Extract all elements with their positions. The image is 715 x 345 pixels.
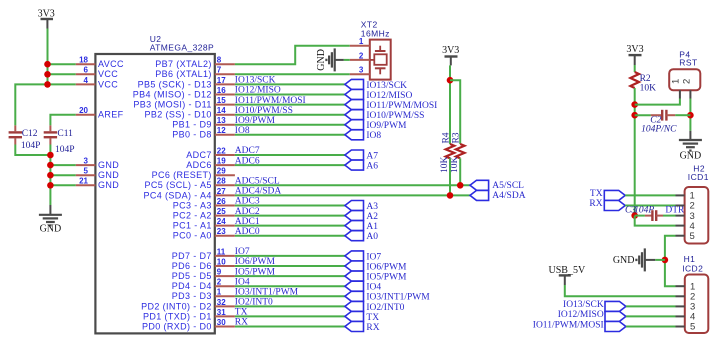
node IO12/MISO flag (at H1) bbox=[605, 311, 626, 321]
pin 3 stub (U2 GND) bbox=[76, 164, 96, 166]
svg-text:IO5/PWM: IO5/PWM bbox=[235, 267, 276, 277]
wire net IO4 bbox=[235, 285, 345, 287]
svg-text:ICD1: ICD1 bbox=[688, 172, 709, 182]
node TX flag bbox=[345, 311, 364, 321]
wire net ADC2 bbox=[235, 215, 345, 217]
svg-text:GND: GND bbox=[98, 180, 119, 190]
pin name PD0 (RXD) - D0 bbox=[142, 321, 212, 331]
svg-text:R4: R4 bbox=[441, 132, 451, 143]
pin 17 stub (U2 PB5 (SCK) - D13) bbox=[215, 83, 235, 85]
wire net ADC5/SCL bbox=[235, 184, 470, 186]
junction RST/C3 bbox=[631, 212, 638, 219]
wire VCC pin6 bbox=[48, 73, 76, 75]
capacitor C12 bbox=[9, 125, 22, 144]
net label IO12/MISO (on wire) bbox=[235, 86, 281, 96]
svg-text:20: 20 bbox=[79, 106, 88, 115]
pin name PD3 - D3 bbox=[172, 291, 212, 301]
wire net IO12/MISO bbox=[235, 94, 345, 96]
svg-text:IO6/PWM: IO6/PWM bbox=[235, 257, 276, 267]
pin 2 stub (P4) bbox=[689, 90, 691, 98]
net name IO9/PWM bbox=[366, 121, 407, 131]
pin 5 stub (U2 GND) bbox=[76, 174, 96, 176]
svg-text:PC3 - A3: PC3 - A3 bbox=[173, 200, 212, 210]
pin name PD2 (INT0) - D2 bbox=[141, 301, 212, 311]
pin 18 stub (U2 AVCC) bbox=[76, 63, 96, 65]
net label ADC7 (on wire) bbox=[235, 146, 260, 156]
svg-text:GND: GND bbox=[316, 49, 327, 71]
ground symbol (right) bbox=[679, 131, 702, 162]
pin 9 stub (U2 PD5 - D5) bbox=[215, 275, 235, 277]
svg-text:104P: 104P bbox=[634, 206, 654, 216]
capacitor C2 bbox=[651, 110, 676, 121]
svg-text:IO10/PWM/SS: IO10/PWM/SS bbox=[366, 111, 424, 121]
junction R4/R3 top bbox=[447, 77, 454, 84]
wire AREF pin20 to C11 bbox=[50, 115, 75, 126]
wire 3V3 to R2 bbox=[634, 65, 636, 72]
svg-text:1: 1 bbox=[671, 79, 682, 84]
label R3 bbox=[452, 132, 462, 143]
svg-text:PB7 (XTAL2): PB7 (XTAL2) bbox=[155, 59, 212, 69]
net name A5/SCL bbox=[492, 181, 524, 191]
label R2 bbox=[640, 74, 651, 84]
wire IO13/SCK to H1 bbox=[626, 305, 676, 307]
svg-text:27: 27 bbox=[217, 187, 226, 196]
svg-text:PB5 (SCK) - D13: PB5 (SCK) - D13 bbox=[138, 79, 212, 89]
pin 29 stub (U2 PC6 (RESET)) bbox=[215, 174, 235, 176]
node A7 flag bbox=[345, 150, 364, 160]
node IO8 flag bbox=[345, 130, 364, 140]
pin number 29 bbox=[217, 167, 226, 176]
svg-text:3: 3 bbox=[84, 157, 89, 166]
junction RST/C2 bbox=[631, 112, 638, 119]
wire GND vertical (left) bbox=[49, 145, 51, 206]
svg-text:IO10/PWM/SS: IO10/PWM/SS bbox=[235, 106, 293, 116]
junction GND (mid-right) bbox=[662, 257, 669, 264]
pin name PC4 (SDA) - A4 bbox=[143, 190, 211, 200]
svg-text:13: 13 bbox=[217, 116, 226, 125]
net name A2 bbox=[366, 212, 378, 222]
wire TX to H2 pin1 bbox=[625, 194, 675, 196]
svg-text:IO13/SCK: IO13/SCK bbox=[235, 76, 276, 86]
svg-text:25: 25 bbox=[217, 207, 226, 216]
wire GND pin5 bbox=[50, 174, 75, 176]
pin 2 stub (U2 PD4 - D4) bbox=[215, 285, 235, 287]
pin number 1 (P4) bbox=[671, 79, 682, 84]
net label IO13/SCK (on wire) bbox=[235, 76, 276, 86]
net label IO4 (on wire) bbox=[235, 277, 250, 287]
svg-text:A2: A2 bbox=[366, 212, 378, 222]
net label IO10/PWM/SS (on wire) bbox=[235, 106, 293, 116]
svg-text:RST: RST bbox=[679, 58, 697, 68]
net label IO2/INT0 (on wire) bbox=[235, 298, 273, 308]
pin 26 stub (U2 PC3 - A3) bbox=[215, 205, 235, 207]
svg-text:31: 31 bbox=[217, 308, 226, 317]
svg-text:ADC5/SCL: ADC5/SCL bbox=[235, 177, 280, 187]
label C11 bbox=[57, 129, 73, 139]
net name IO4 bbox=[366, 283, 381, 293]
pin number 2 bbox=[217, 278, 222, 287]
wire AVCC pin18 bbox=[48, 63, 76, 65]
svg-text:PD0 (RXD) - D0: PD0 (RXD) - D0 bbox=[142, 321, 212, 331]
net name IO2/INT0 bbox=[366, 303, 404, 313]
wire XTAL2 (pin8 to XT2 pin1) bbox=[235, 46, 350, 64]
svg-text:IO12/MISO: IO12/MISO bbox=[558, 310, 604, 320]
svg-text:18: 18 bbox=[79, 56, 88, 65]
svg-text:5: 5 bbox=[84, 167, 89, 176]
node A5/SCL flag bbox=[470, 180, 489, 190]
svg-text:24: 24 bbox=[217, 217, 226, 226]
svg-text:19: 19 bbox=[217, 157, 226, 166]
svg-text:21: 21 bbox=[79, 177, 88, 186]
pin number 4 (H2) bbox=[690, 221, 695, 232]
power symbol 3V3 (middle) bbox=[442, 45, 459, 65]
net name IO3/INT1/PWM bbox=[366, 293, 430, 303]
svg-text:5: 5 bbox=[690, 322, 695, 333]
connector H1 body bbox=[685, 275, 709, 334]
wire branch to R3 bbox=[450, 80, 460, 144]
pin number 20 bbox=[79, 106, 88, 115]
ground symbol (at XT2) bbox=[316, 48, 344, 71]
pin number 28 bbox=[217, 177, 226, 186]
pin 8 stub (U2 PB7 (XTAL2)) bbox=[215, 63, 235, 65]
wire GND stub (mid) bbox=[655, 259, 665, 261]
pin number 4 bbox=[84, 76, 89, 85]
value 104P (C11) bbox=[55, 145, 75, 155]
wire RST vertical bbox=[634, 88, 636, 216]
wire IO11/PWM/MOSI to H1 bbox=[626, 326, 676, 328]
svg-text:1: 1 bbox=[217, 288, 222, 297]
svg-text:IO8: IO8 bbox=[366, 131, 381, 141]
wire C2 right bbox=[675, 114, 690, 116]
svg-text:7: 7 bbox=[217, 66, 222, 75]
pin 2 stub (H2) bbox=[676, 205, 685, 207]
pin 22 stub (U2 ADC7) bbox=[215, 154, 235, 156]
svg-text:PD7 - D7: PD7 - D7 bbox=[172, 251, 212, 261]
pin number 5 (H2) bbox=[690, 231, 695, 242]
pin number 30 bbox=[217, 318, 226, 327]
svg-text:IO7: IO7 bbox=[235, 247, 250, 257]
pin 31 stub (U2 PD1 (TXD) - D1) bbox=[215, 315, 235, 317]
svg-text:23: 23 bbox=[217, 227, 226, 236]
net label ADC5/SCL bbox=[235, 177, 280, 187]
pin number 26 bbox=[217, 197, 226, 206]
svg-text:IO11/PWM/MOSI: IO11/PWM/MOSI bbox=[533, 320, 604, 330]
svg-text:10K: 10K bbox=[440, 156, 450, 173]
svg-text:A0: A0 bbox=[366, 232, 378, 242]
pin number 15 bbox=[217, 96, 226, 105]
pin number 13 bbox=[217, 116, 226, 125]
net name A6 bbox=[366, 162, 378, 172]
pin number 17 bbox=[217, 76, 226, 85]
junction R4/SDA bbox=[447, 192, 454, 199]
pin number 9 bbox=[217, 268, 222, 277]
svg-text:PD5 - D5: PD5 - D5 bbox=[172, 271, 212, 281]
wire P4 pin1 to RST bbox=[635, 99, 680, 105]
svg-text:3V3: 3V3 bbox=[626, 44, 643, 55]
net name TX bbox=[366, 313, 379, 323]
pin name PB0 - D8 bbox=[172, 130, 212, 140]
svg-text:3: 3 bbox=[359, 66, 364, 75]
pin number 19 bbox=[217, 157, 226, 166]
svg-text:IO4: IO4 bbox=[235, 277, 250, 287]
svg-text:PC6 (RESET): PC6 (RESET) bbox=[152, 170, 212, 180]
pin number 3 (XT2) bbox=[359, 66, 364, 75]
svg-text:GND: GND bbox=[40, 224, 62, 235]
wire net ADC3 bbox=[235, 205, 345, 207]
svg-text:16MHz: 16MHz bbox=[361, 28, 390, 38]
pin name PC5 (SCL) - A5 bbox=[144, 180, 211, 190]
svg-text:IO7: IO7 bbox=[366, 252, 381, 262]
net label IO3/INT1/PWM (on wire) bbox=[235, 288, 299, 298]
pin number 3 (H2) bbox=[690, 211, 695, 222]
svg-text:A1: A1 bbox=[366, 222, 378, 232]
svg-text:IO11/PWM/MOSI: IO11/PWM/MOSI bbox=[235, 96, 306, 106]
node A3 flag bbox=[345, 201, 364, 211]
net label IO5/PWM (on wire) bbox=[235, 267, 276, 277]
svg-text:17: 17 bbox=[217, 76, 226, 85]
net name TX bbox=[590, 189, 603, 199]
svg-text:29: 29 bbox=[217, 167, 226, 176]
wire net ADC7 bbox=[235, 154, 345, 156]
pin number 5 (H1) bbox=[690, 322, 695, 333]
svg-text:IO2/INT0: IO2/INT0 bbox=[366, 303, 404, 313]
label P4 bbox=[679, 50, 690, 60]
svg-text:PB2 (SS) - D10: PB2 (SS) - D10 bbox=[144, 110, 211, 120]
pin name PB5 (SCK) - D13 bbox=[138, 79, 212, 89]
op-amp U1 IC body U2 bbox=[95, 54, 214, 333]
svg-text:IO12/MISO: IO12/MISO bbox=[366, 91, 412, 101]
pin 15 stub (U2 PB3 (MOSI) - D11) bbox=[215, 104, 235, 106]
net label IO11/PWM/MOSI (on wire) bbox=[235, 96, 306, 106]
net label ADC6 (on wire) bbox=[235, 156, 260, 166]
pin 1 stub (U2 PD3 - D3) bbox=[215, 295, 235, 297]
power symbol 3V3 (right) bbox=[626, 44, 643, 65]
net name IO8 bbox=[366, 131, 381, 141]
pin number 3 bbox=[84, 157, 89, 166]
wire R3 bottom to SCL bbox=[459, 158, 461, 185]
wire GND pin3 bbox=[50, 164, 75, 166]
net name A3 bbox=[366, 202, 378, 212]
label C2 bbox=[650, 116, 661, 126]
node TX flag bbox=[604, 190, 625, 200]
net label ADC4/SDA bbox=[235, 187, 282, 197]
capacitor C11 bbox=[44, 125, 57, 144]
wire C2 left bbox=[635, 114, 651, 116]
svg-text:PB1 - D9: PB1 - D9 bbox=[172, 120, 212, 130]
pin number 2 (H2) bbox=[690, 201, 695, 212]
svg-text:PD3 - D3: PD3 - D3 bbox=[172, 291, 212, 301]
svg-text:RX: RX bbox=[366, 323, 379, 333]
pin name GND (row 12) bbox=[98, 180, 119, 190]
pin number 1 (H2) bbox=[690, 191, 695, 202]
wire net ADC0 bbox=[235, 235, 345, 237]
value 10K (R2) bbox=[640, 83, 657, 93]
net label RX (on wire) bbox=[235, 318, 248, 328]
junction GND3 bbox=[47, 162, 54, 169]
pin number 32 bbox=[217, 298, 226, 307]
svg-text:PC4 (SDA) - A4: PC4 (SDA) - A4 bbox=[143, 190, 211, 200]
pin name VCC (row 2) bbox=[98, 79, 118, 89]
pin 19 stub (U2 ADC6) bbox=[215, 164, 235, 166]
net label ADC1 (on wire) bbox=[235, 217, 260, 227]
node IO12/MISO flag bbox=[345, 90, 364, 100]
svg-text:2: 2 bbox=[359, 51, 364, 60]
pin number 1 (H1) bbox=[690, 281, 695, 292]
wire USB_5V to H1 pin2 bbox=[565, 285, 676, 296]
wire H2 pin5 to GND to H1 pin1 bbox=[665, 236, 676, 287]
net name IO11/PWM/MOSI bbox=[366, 101, 437, 111]
svg-text:TX: TX bbox=[590, 189, 603, 199]
net label IO7 (on wire) bbox=[235, 247, 250, 257]
svg-text:RX: RX bbox=[235, 318, 248, 328]
svg-text:TX: TX bbox=[366, 313, 379, 323]
svg-text:32: 32 bbox=[217, 298, 226, 307]
net label TX (on wire) bbox=[235, 308, 248, 318]
net label IO6/PWM (on wire) bbox=[235, 257, 276, 267]
svg-text:104P/NC: 104P/NC bbox=[641, 125, 677, 135]
pin 14 stub (U2 PB2 (SS) - D10) bbox=[215, 114, 235, 116]
svg-text:IO5/PWM: IO5/PWM bbox=[366, 273, 407, 283]
svg-text:PC1 - A1: PC1 - A1 bbox=[173, 221, 212, 231]
junction RST/P4 bbox=[631, 101, 638, 108]
pin name PC6 (RESET) bbox=[152, 170, 212, 180]
pin number 12 bbox=[217, 126, 226, 135]
node IO7 flag bbox=[345, 251, 364, 261]
wire GND pin21 bbox=[50, 184, 75, 186]
label H1 bbox=[684, 254, 696, 264]
wire net ADC6 bbox=[235, 164, 345, 166]
svg-text:ADC6: ADC6 bbox=[186, 160, 212, 170]
pin name PB1 - D9 bbox=[172, 120, 212, 130]
pin name PB4 (MISO) - D12 bbox=[133, 89, 212, 99]
svg-text:AVCC: AVCC bbox=[98, 59, 124, 69]
pin number 25 bbox=[217, 207, 226, 216]
net label IO8 (on wire) bbox=[235, 126, 250, 136]
node IO11/PWM/MOSI flag bbox=[345, 100, 364, 110]
wire 3V3 to R4 bbox=[449, 65, 451, 144]
pin number 18 bbox=[79, 56, 88, 65]
svg-text:IO6/PWM: IO6/PWM bbox=[366, 262, 407, 272]
svg-text:IO3/INT1/PWM: IO3/INT1/PWM bbox=[366, 293, 430, 303]
net label DTR bbox=[665, 206, 685, 216]
pin 1 stub (H1) bbox=[676, 285, 685, 287]
wire C3 right (DTR) bbox=[663, 215, 676, 217]
svg-text:IO9/PWM: IO9/PWM bbox=[366, 121, 407, 131]
svg-text:A7: A7 bbox=[366, 151, 378, 161]
pin 5 stub (H2) bbox=[676, 235, 685, 237]
pin 21 stub (U2 GND) bbox=[76, 184, 96, 186]
wire net IO11/PWM/MOSI bbox=[235, 104, 345, 106]
svg-text:5: 5 bbox=[690, 231, 695, 242]
node RX flag bbox=[345, 322, 364, 332]
wire IO12/MISO to H1 bbox=[626, 315, 676, 317]
label U2 bbox=[150, 34, 162, 44]
svg-text:IO4: IO4 bbox=[366, 283, 381, 293]
value ATMEGA_328P bbox=[150, 42, 214, 52]
pin number 16 bbox=[217, 86, 226, 95]
svg-text:22: 22 bbox=[217, 146, 226, 155]
pin number 7 bbox=[217, 66, 222, 75]
svg-text:PB6 (XTAL1): PB6 (XTAL1) bbox=[155, 69, 212, 79]
pin 11 stub (U2 PD7 - D7) bbox=[215, 255, 235, 257]
svg-text:ADC6: ADC6 bbox=[235, 156, 260, 166]
pin name ADC7 bbox=[186, 150, 212, 160]
net name IO13/SCK bbox=[366, 81, 407, 91]
label C12 bbox=[22, 129, 38, 139]
pin name PC1 - A1 bbox=[173, 221, 212, 231]
svg-text:PD2 (INT0) - D2: PD2 (INT0) - D2 bbox=[141, 301, 212, 311]
svg-text:DTR: DTR bbox=[665, 206, 685, 216]
label XT2 bbox=[361, 19, 378, 29]
svg-text:A4/SDA: A4/SDA bbox=[492, 191, 525, 201]
node RX flag bbox=[604, 201, 625, 211]
value 10K (R4) bbox=[440, 156, 450, 173]
svg-text:IO8: IO8 bbox=[235, 126, 250, 136]
svg-text:8: 8 bbox=[217, 56, 222, 65]
net name IO7 bbox=[366, 252, 381, 262]
svg-text:10K: 10K bbox=[450, 156, 460, 173]
pin 32 stub (U2 PD2 (INT0) - D2) bbox=[215, 305, 235, 307]
pin number 11 bbox=[217, 247, 226, 256]
node A2 flag bbox=[345, 211, 364, 221]
pin number 1 (XT2) bbox=[359, 37, 364, 46]
svg-text:1: 1 bbox=[359, 37, 364, 46]
junction GND21 bbox=[47, 182, 54, 189]
resistor R4 bbox=[446, 144, 455, 158]
pin 2 stub (H1) bbox=[676, 295, 685, 297]
label C3 bbox=[625, 206, 636, 216]
svg-text:ADC0: ADC0 bbox=[235, 227, 260, 237]
pin 1 stub (H2) bbox=[676, 194, 685, 196]
net name IO11/PWM/MOSI (at H1) bbox=[533, 320, 604, 330]
svg-text:ADC3: ADC3 bbox=[235, 197, 260, 207]
pin name PB7 (XTAL2) bbox=[155, 59, 212, 69]
node A6 flag bbox=[345, 160, 364, 170]
svg-text:R3: R3 bbox=[452, 132, 462, 143]
node IO6/PWM flag bbox=[345, 261, 364, 271]
pin name PC3 - A3 bbox=[173, 200, 212, 210]
pin 13 stub (U2 PB1 - D9) bbox=[215, 124, 235, 126]
pin 12 stub (U2 PB0 - D8) bbox=[215, 134, 235, 136]
wire net IO6/PWM bbox=[235, 265, 345, 267]
svg-text:9: 9 bbox=[217, 268, 222, 277]
wire XTAL1 (pin7 to XT2 pin3) bbox=[235, 73, 350, 75]
junction 3V3/VCC4 bbox=[44, 81, 51, 88]
pin 3 stub (XT2) bbox=[350, 73, 370, 75]
svg-text:ADC7: ADC7 bbox=[235, 146, 260, 156]
node IO2/INT0 flag bbox=[345, 301, 364, 311]
pin number 5 bbox=[84, 167, 89, 176]
wire net ADC4/SDA bbox=[235, 194, 470, 196]
svg-text:VCC: VCC bbox=[98, 69, 118, 79]
svg-text:12: 12 bbox=[217, 126, 226, 135]
wire net ADC1 bbox=[235, 225, 345, 227]
pin name PB3 (MOSI) - D11 bbox=[133, 100, 211, 110]
ground symbol (mid, H2/H1) bbox=[613, 248, 655, 271]
svg-text:C12: C12 bbox=[22, 129, 38, 139]
net name RX bbox=[366, 323, 379, 333]
pin 25 stub (U2 PC2 - A2) bbox=[215, 215, 235, 217]
pin 10 stub (U2 PD6 - D6) bbox=[215, 265, 235, 267]
net label ADC3 (on wire) bbox=[235, 197, 260, 207]
node IO5/PWM flag bbox=[345, 271, 364, 281]
pin name GND (row 10) bbox=[98, 160, 119, 170]
net name IO6/PWM bbox=[366, 262, 407, 272]
wire net IO3/INT1/PWM bbox=[235, 295, 345, 297]
node IO11/PWM/MOSI flag (at H1) bbox=[605, 322, 626, 332]
value ICD2 bbox=[682, 263, 703, 273]
pin name AREF (row 5) bbox=[98, 110, 124, 120]
